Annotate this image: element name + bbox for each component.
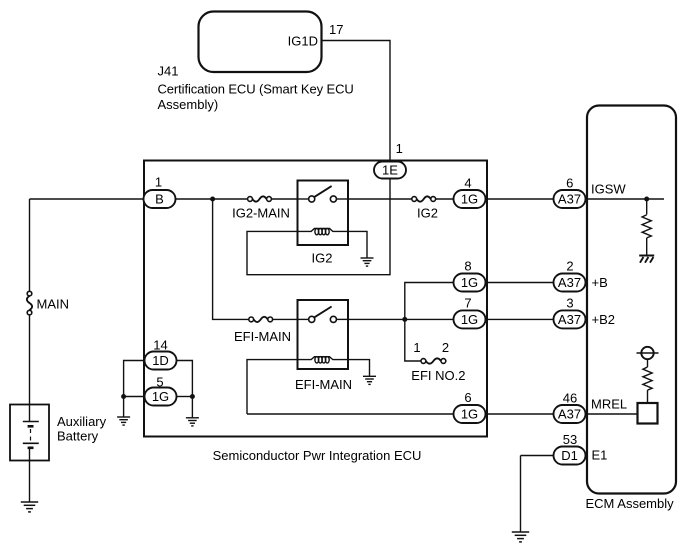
fuse EFI NO.2 bbox=[411, 340, 465, 383]
relay EFI-MAIN bbox=[295, 300, 352, 392]
svg-text:EFI NO.2: EFI NO.2 bbox=[411, 368, 465, 383]
svg-text:5: 5 bbox=[156, 374, 163, 389]
svg-text:7: 7 bbox=[464, 296, 471, 311]
node MREL bbox=[586, 397, 638, 415]
svg-text:A37: A37 bbox=[558, 407, 581, 422]
wire EFI-MAIN relay output to 1G pin 7 bbox=[348, 318, 454, 320]
ground battery bbox=[21, 502, 38, 512]
ground inside ECU bbox=[186, 418, 199, 426]
svg-text:1G: 1G bbox=[461, 312, 478, 327]
svg-text:D1: D1 bbox=[561, 448, 578, 463]
fuse IG2-MAIN bbox=[232, 196, 290, 220]
fuse EFI-MAIN bbox=[234, 317, 291, 344]
wire battery feed to connector B bbox=[30, 198, 144, 200]
svg-text:1D: 1D bbox=[152, 353, 169, 368]
svg-text:1E: 1E bbox=[382, 163, 398, 178]
connector B pin 1 bbox=[144, 175, 176, 209]
svg-text:EFI-MAIN: EFI-MAIN bbox=[295, 377, 352, 392]
wire IG2 fuse to connector 1G pin 4 bbox=[436, 198, 454, 200]
svg-text:4: 4 bbox=[464, 176, 471, 191]
connector A37 pin 2 bbox=[554, 259, 586, 292]
svg-text:IGSW: IGSW bbox=[591, 182, 626, 197]
wire IG2-MAIN fuse to relay IG2 bbox=[272, 198, 298, 200]
fuse IG2 bbox=[412, 196, 438, 220]
ground EFI-MAIN relay coil bbox=[363, 376, 376, 384]
svg-text:1: 1 bbox=[155, 175, 162, 190]
ECU box Semiconductor Pwr Integration ECU bbox=[144, 161, 487, 437]
svg-text:+B: +B bbox=[592, 275, 608, 290]
svg-text:A37: A37 bbox=[558, 312, 581, 327]
wire 1G4 to A37 pin6 bbox=[486, 198, 554, 200]
svg-text:+B2: +B2 bbox=[592, 312, 616, 327]
svg-text:J41: J41 bbox=[158, 64, 179, 79]
svg-text:6: 6 bbox=[464, 390, 471, 405]
resistor pull-down on IGSW bbox=[642, 199, 651, 255]
connector 1G pin 4 bbox=[454, 176, 486, 209]
connector 1G pin 8 bbox=[454, 259, 486, 292]
svg-text:3: 3 bbox=[566, 296, 573, 311]
wire 1G5 right lead bbox=[177, 396, 193, 398]
svg-text:IG2: IG2 bbox=[312, 250, 333, 265]
node IGSW bbox=[586, 182, 664, 202]
svg-text:MREL: MREL bbox=[591, 397, 627, 412]
svg-text:B: B bbox=[155, 192, 164, 207]
svg-text:E1: E1 bbox=[592, 448, 608, 463]
wire EFI-MAIN coil left lead to 1G pin 6 row bbox=[247, 360, 298, 414]
svg-text:Assembly): Assembly) bbox=[158, 97, 219, 112]
svg-text:2: 2 bbox=[442, 340, 449, 355]
junction node right ground bbox=[190, 394, 195, 399]
ground left of ECU bbox=[117, 417, 130, 425]
junction node below B bbox=[210, 197, 215, 202]
svg-text:Auxiliary: Auxiliary bbox=[57, 414, 107, 429]
wire MAIN fuse to battery bbox=[29, 315, 31, 405]
connector 1G pin 5 bbox=[145, 374, 177, 405]
connector A37 pin 3 bbox=[554, 296, 586, 329]
svg-text:8: 8 bbox=[464, 259, 471, 274]
svg-text:1G: 1G bbox=[152, 389, 169, 404]
svg-text:IG2-MAIN: IG2-MAIN bbox=[232, 206, 290, 221]
ECM Assembly box bbox=[587, 106, 676, 494]
svg-text:A37: A37 bbox=[558, 275, 581, 290]
wire B to IG2-MAIN fuse bbox=[176, 198, 248, 200]
wire D1 to ground bbox=[521, 456, 554, 532]
wire 1G8 to A37 pin2 bbox=[486, 282, 554, 284]
connector D1 pin 53 bbox=[554, 432, 586, 465]
battery Auxiliary Battery bbox=[10, 405, 107, 502]
svg-text:EFI-MAIN: EFI-MAIN bbox=[234, 329, 291, 344]
connector J41 Certification ECU (Smart Key ECU Assembly) bbox=[158, 12, 354, 113]
svg-text:ECM Assembly: ECM Assembly bbox=[586, 496, 675, 511]
connector A37 pin 6 bbox=[554, 176, 586, 209]
wire pin6 row inside ECU bbox=[247, 413, 454, 415]
svg-text:IG2: IG2 bbox=[417, 206, 438, 221]
ground IG2 relay coil bbox=[361, 258, 374, 266]
wire 1E down to IG2 relay coil feedback row bbox=[247, 179, 390, 275]
svg-text:Battery: Battery bbox=[57, 429, 99, 444]
svg-text:1G: 1G bbox=[461, 192, 478, 207]
ECM internal MREL relay coil circuit bbox=[637, 347, 659, 424]
wire IG1D pin17 to connector 1E bbox=[321, 41, 390, 162]
svg-text:1G: 1G bbox=[461, 275, 478, 290]
svg-text:A37: A37 bbox=[558, 192, 581, 207]
svg-text:53: 53 bbox=[563, 432, 577, 447]
wire IG2 relay to IG2 fuse bbox=[348, 198, 412, 200]
connector 1E pin 1 bbox=[374, 141, 406, 179]
wire 1D right lead to inside ground bbox=[177, 361, 193, 418]
fuse MAIN bbox=[27, 291, 69, 315]
wire EFI-MAIN relay coil to ground bbox=[348, 360, 370, 376]
wire EFI-MAIN fuse to relay EFI-MAIN bbox=[273, 318, 298, 320]
svg-text:MAIN: MAIN bbox=[37, 297, 70, 312]
svg-text:IG1D: IG1D bbox=[288, 34, 318, 49]
wire down to MAIN fuse bbox=[29, 199, 31, 291]
relay IG2 bbox=[298, 181, 349, 266]
chassis ground IGSW resistor bbox=[639, 256, 654, 263]
wire 1G7 to A37 pin3 bbox=[486, 318, 554, 320]
svg-text:14: 14 bbox=[153, 338, 167, 353]
junction node EFI output bbox=[402, 317, 407, 322]
svg-text:17: 17 bbox=[329, 22, 343, 37]
wire IG2 relay coil to ground bbox=[348, 231, 367, 257]
wire branch up to 1G pin 8 bbox=[405, 283, 454, 320]
svg-text:1G: 1G bbox=[461, 407, 478, 422]
svg-text:2: 2 bbox=[566, 259, 573, 274]
svg-text:6: 6 bbox=[566, 176, 573, 191]
connector 1D pin 14 bbox=[145, 338, 177, 370]
wire 1D left lead to outside ground bbox=[124, 361, 145, 417]
svg-text:Certification ECU (Smart Key E: Certification ECU (Smart Key ECU bbox=[158, 82, 354, 97]
connector 1G pin 6 bbox=[454, 390, 486, 423]
wire junction down to EFI-MAIN fuse bbox=[213, 199, 249, 319]
svg-text:46: 46 bbox=[563, 391, 577, 406]
connector 1G pin 7 bbox=[454, 296, 486, 329]
ground E1 bbox=[512, 532, 529, 542]
connector A37 pin 46 bbox=[554, 391, 586, 424]
wire 1G6 to A37 pin46 bbox=[486, 413, 554, 415]
svg-text:1: 1 bbox=[413, 340, 420, 355]
wire 1G5 left lead bbox=[124, 396, 145, 398]
svg-text:1: 1 bbox=[396, 141, 403, 156]
junction node left ground bbox=[121, 394, 126, 399]
svg-text:Semiconductor Pwr Integration: Semiconductor Pwr Integration ECU bbox=[213, 448, 422, 463]
wire branch down to fuse EFI NO.2 bbox=[405, 319, 421, 361]
